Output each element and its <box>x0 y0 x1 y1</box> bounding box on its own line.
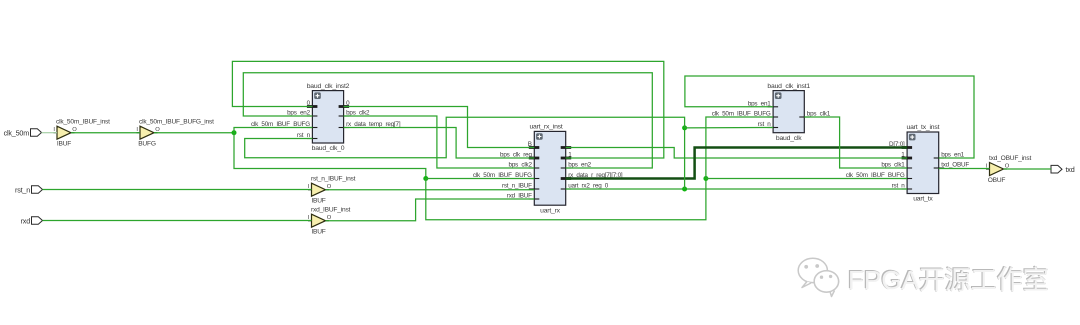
svg-text:uart_tx_inst: uart_tx_inst <box>907 124 940 131</box>
wire uart_rx2_reg_0 long branch to baud_clk_inst2 rst pin <box>245 117 685 158</box>
junction J1 on clk net <box>232 130 237 135</box>
wire bps_clk1: baud_clk_inst1 to uart_tx <box>804 117 907 168</box>
wire rxd port to IBUF <box>43 220 312 222</box>
wire clk net J1 to baud_clk_inst2 clk pin <box>234 128 312 133</box>
svg-text:IBUF: IBUF <box>311 229 325 236</box>
buffer clk_50m_IBUF_inst (IBUF) <box>53 119 110 148</box>
wire txd: OBUF to txd port <box>1004 168 1052 170</box>
svg-text:txd: txd <box>1066 165 1075 174</box>
port clk_50m (input) <box>4 128 42 137</box>
junction J3 on clk net at uart_tx branch <box>703 176 708 181</box>
wire clk net riser to baud_clk_inst1 clk pin <box>706 117 773 179</box>
wire clk_50m_IBUF_BUFG: BUFG output to junction J1 <box>154 132 234 134</box>
svg-text:OBUF: OBUF <box>988 177 1006 184</box>
watermark text <box>848 260 1049 297</box>
module block uart_rx_inst <box>473 124 623 215</box>
junction J5 uart_rx2_reg_0 <box>682 125 687 130</box>
svg-text:rxd: rxd <box>21 216 31 225</box>
junction J4 uart_rx2_reg_0 <box>682 187 687 192</box>
svg-text:clk_50m_IBUF_inst: clk_50m_IBUF_inst <box>56 119 110 126</box>
wire rxd_IBUF to uart_rx rxd pin <box>326 199 535 221</box>
svg-text:uart_rx: uart_rx <box>540 207 561 214</box>
wire txd_OBUF: uart_tx to OBUF <box>939 168 990 170</box>
bus rx_data_r_reg[7][7:0]: uart_rx to uart_tx <box>566 148 907 179</box>
svg-text:IBUF: IBUF <box>311 198 325 205</box>
wire rx_data_temp_reg[7]: baud_clk_inst2 to uart_rx bps_clk_reg <box>344 128 535 159</box>
wire clk net J2 down along bottom to riser x=705.9 <box>426 179 706 220</box>
svg-text:txd_OBUF: txd_OBUF <box>941 162 969 169</box>
svg-text:uart_rx_inst: uart_rx_inst <box>529 124 562 131</box>
wire uart_rx2_reg_0 to baud_clk_inst1 rst pin <box>685 127 774 129</box>
wire clk net J3 to uart_tx clk pin <box>706 178 907 180</box>
svg-text:baud_clk: baud_clk <box>776 135 802 142</box>
wire uart_rx pin1 to uart_tx pin2 <box>566 148 907 159</box>
svg-text:rst_n: rst_n <box>15 185 30 194</box>
port rxd (input) <box>21 216 43 225</box>
wire clk_50m_IBUF: IBUF to BUFG <box>71 132 140 134</box>
wire uart_rx2_reg_0: uart_rx to uart_tx rst pin <box>566 188 907 190</box>
svg-text:baud_clk_inst2: baud_clk_inst2 <box>307 83 350 90</box>
svg-text:rst_n_IBUF: rst_n_IBUF <box>502 183 532 190</box>
buffer rxd_IBUF_inst (IBUF) <box>308 207 351 236</box>
svg-text:rxd_IBUF_inst: rxd_IBUF_inst <box>311 207 351 214</box>
svg-text:IBUF: IBUF <box>57 141 71 148</box>
watermark FPGA open source studio <box>797 255 1080 305</box>
module block uart_tx_inst <box>846 124 970 203</box>
module block baud_clk_inst1 <box>712 83 831 142</box>
watermark WeChat logo <box>797 256 849 302</box>
buffer rst_n_IBUF_inst (IBUF) <box>308 176 356 205</box>
wire clk net J2 to uart_rx clk pin <box>426 178 535 180</box>
module block baud_clk_inst2 <box>251 83 401 152</box>
wire uart_rx2_reg_0 riser to junction J5 <box>684 128 686 189</box>
wire baud_clk_inst2 top output to uart_rx pin B <box>344 107 535 148</box>
svg-text:rst_n_IBUF_inst: rst_n_IBUF_inst <box>311 176 356 183</box>
wire bps_en2: uart_rx to baud_clk_inst2 over the top <box>243 73 652 168</box>
wire bps_en1: uart_tx to baud_clk_inst1 over the top <box>685 76 974 158</box>
wire rst_n port to IBUF <box>43 189 312 191</box>
svg-text:clk_50m: clk_50m <box>4 128 30 137</box>
buffer txd_OBUF_inst (OBUF) <box>986 155 1032 184</box>
svg-text:baud_clk_inst1: baud_clk_inst1 <box>767 83 810 90</box>
buffer clk_50m_IBUF_BUFG_inst (BUFG) <box>136 119 214 148</box>
junction J2 on clk net <box>423 176 428 181</box>
wire net0: uart_rx pin2 to baud_clk_inst2 top pin over the top <box>232 61 663 158</box>
svg-text:txd_OBUF_inst: txd_OBUF_inst <box>989 155 1031 162</box>
svg-text:BUFG: BUFG <box>138 141 156 148</box>
svg-text:uart_tx: uart_tx <box>913 196 933 203</box>
wire bps_clk2: baud_clk_inst2 to uart_rx <box>344 116 535 168</box>
port rst_n (input) <box>15 185 42 194</box>
wire rst_n_IBUF to uart_rx rst pin <box>326 189 535 191</box>
port txd (output) <box>1051 165 1075 174</box>
wire clk net J1 down and right to junction J2 <box>234 133 426 179</box>
svg-text:clk_50m_IBUF_BUFG_inst: clk_50m_IBUF_BUFG_inst <box>139 119 214 126</box>
wire clk_50m port to IBUF <box>42 132 58 134</box>
svg-text:baud_clk_0: baud_clk_0 <box>312 145 345 152</box>
